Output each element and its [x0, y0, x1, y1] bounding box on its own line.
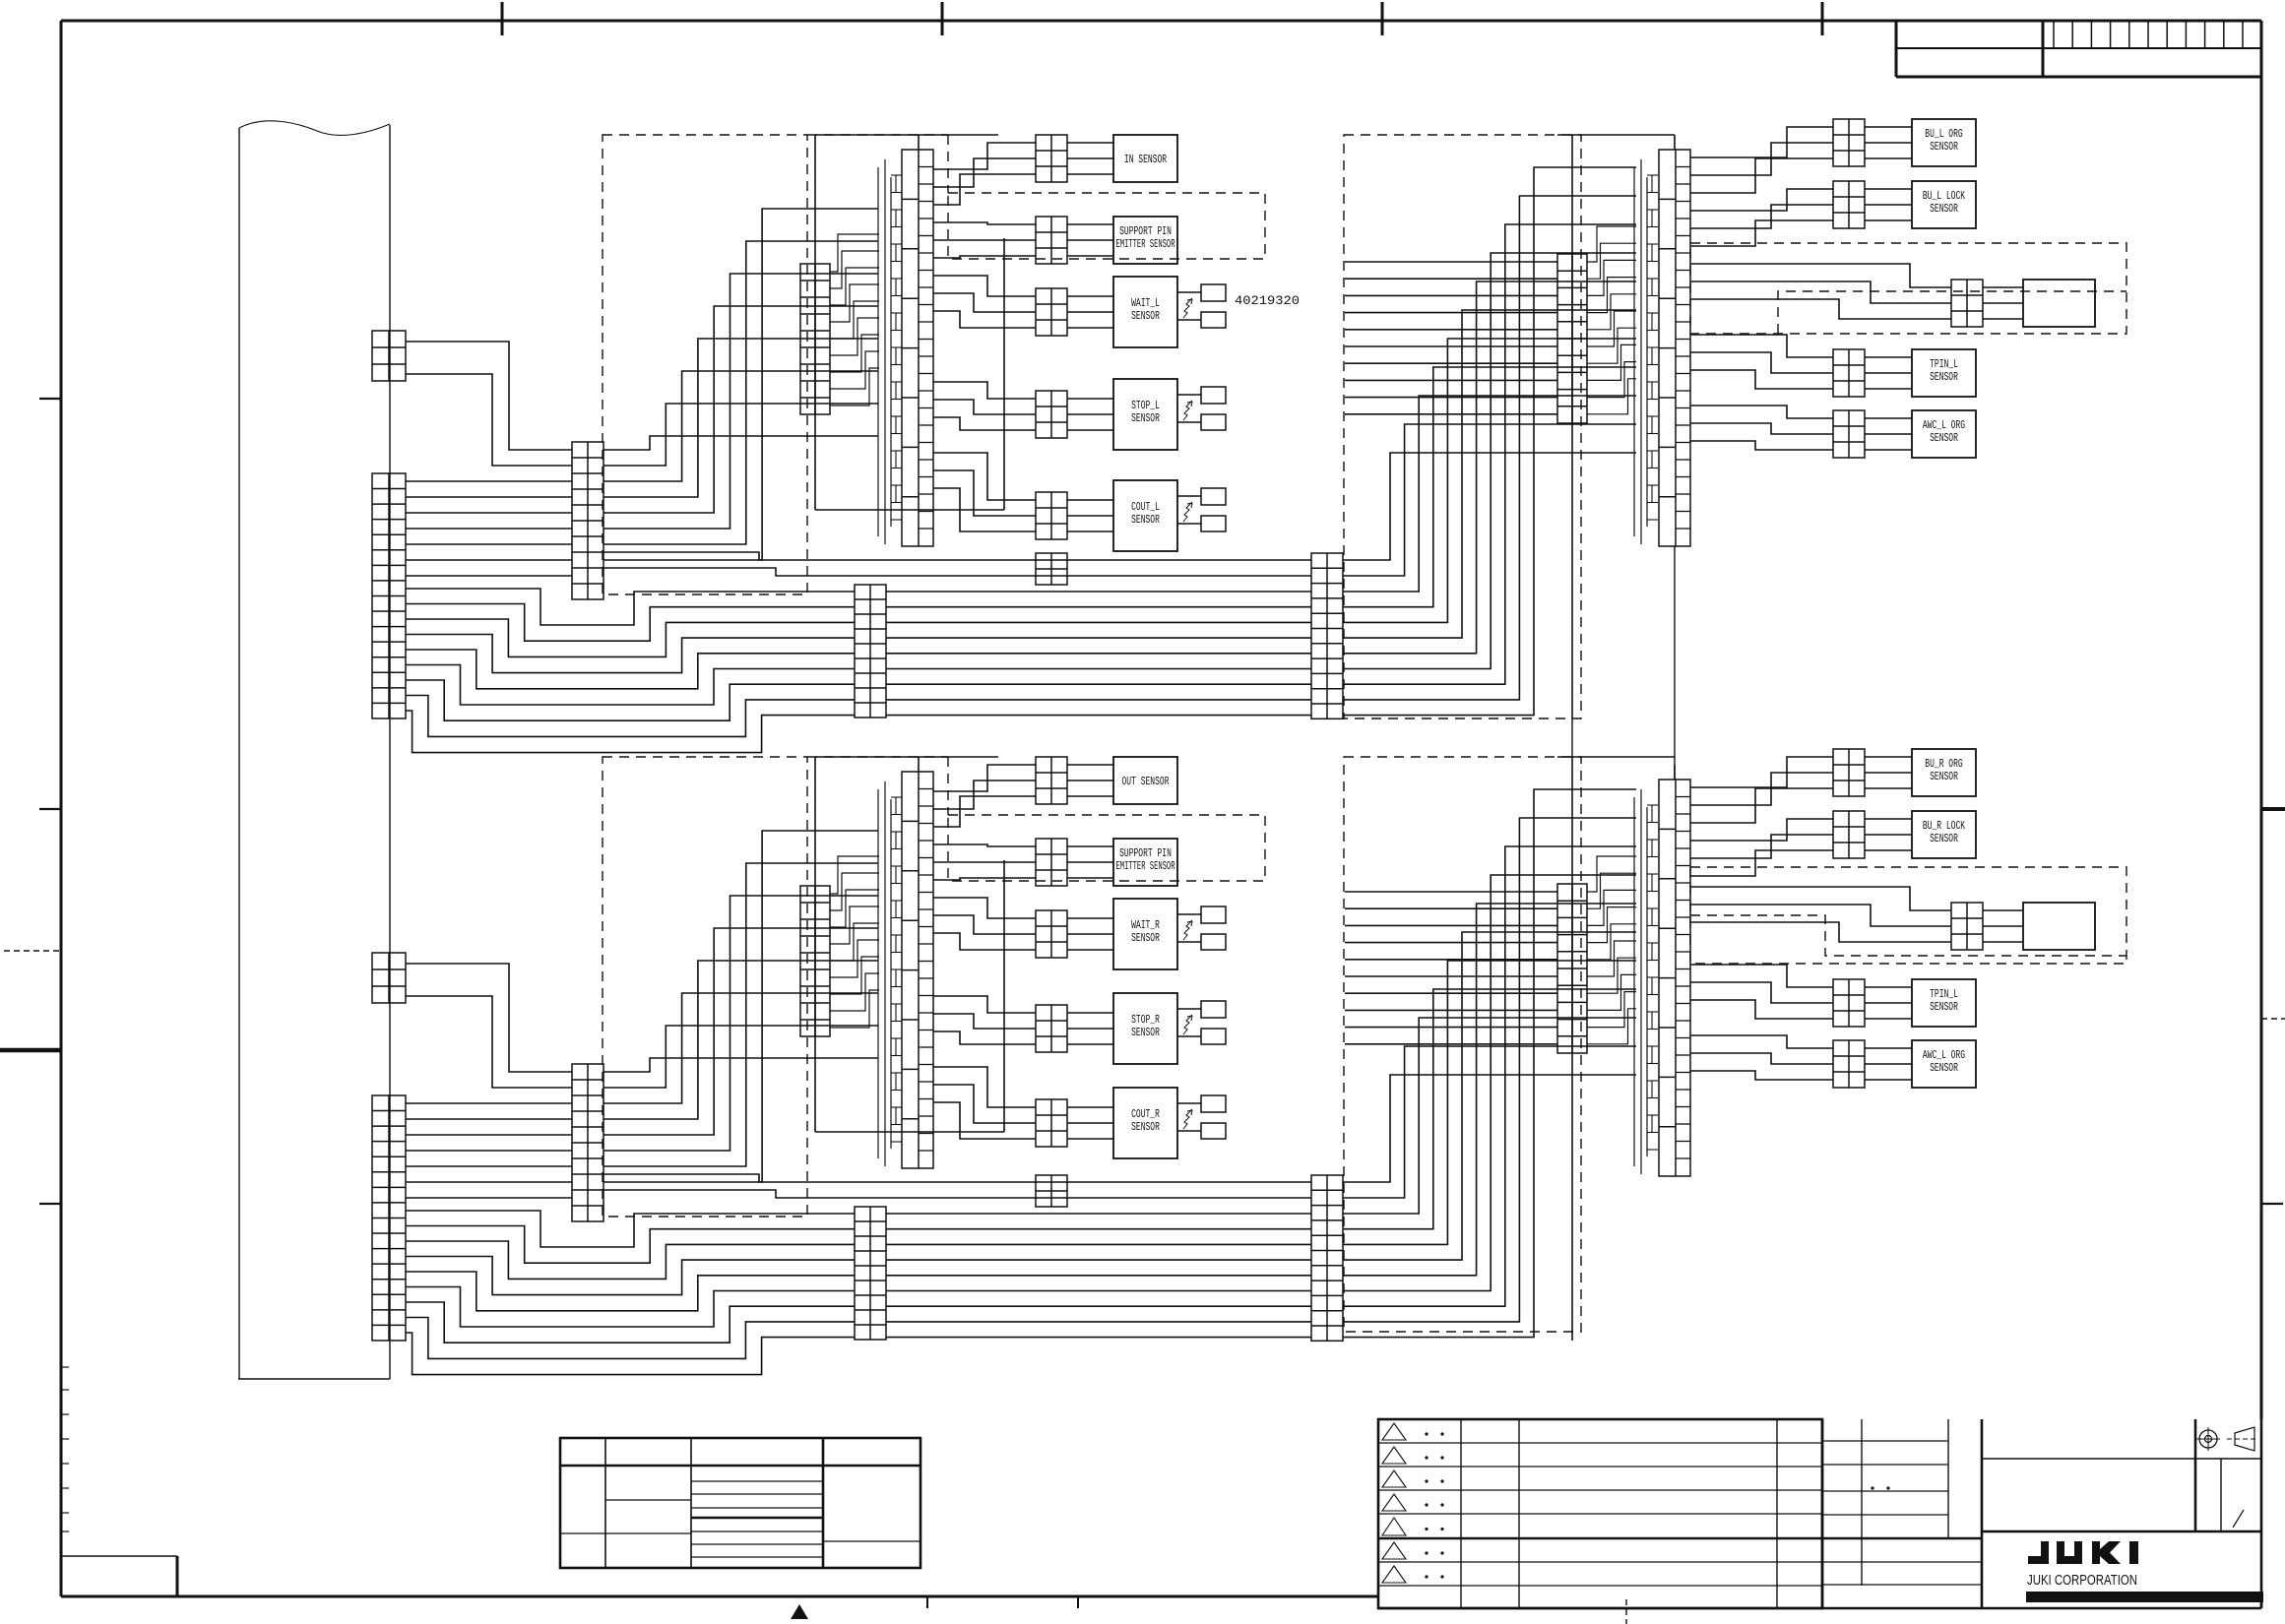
svg-text:SENSOR: SENSOR: [1930, 371, 1958, 384]
svg-text:BU_R ORG: BU_R ORG: [1925, 758, 1962, 771]
svg-text:BU_R LOCK: BU_R LOCK: [1923, 820, 1965, 833]
svg-text:BU_L ORG: BU_L ORG: [1925, 128, 1962, 141]
svg-text:SENSOR: SENSOR: [1930, 1001, 1958, 1014]
svg-text:TPIN_L: TPIN_L: [1930, 988, 1958, 1001]
svg-text:SENSOR: SENSOR: [1930, 1062, 1958, 1075]
svg-text:SENSOR: SENSOR: [1131, 310, 1160, 323]
svg-text:SENSOR: SENSOR: [1131, 514, 1160, 527]
svg-text:AWC_L ORG: AWC_L ORG: [1923, 1049, 1965, 1062]
svg-text:SENSOR: SENSOR: [1930, 432, 1958, 445]
svg-text:WAIT_R: WAIT_R: [1131, 919, 1160, 932]
svg-text:SENSOR: SENSOR: [1131, 1027, 1160, 1039]
svg-text:IN SENSOR: IN SENSOR: [1124, 154, 1167, 166]
svg-text:SUPPORT PIN: SUPPORT PIN: [1119, 225, 1172, 238]
svg-text:40219320: 40219320: [1235, 293, 1300, 308]
svg-text:BU_L LOCK: BU_L LOCK: [1923, 190, 1965, 203]
svg-text:STOP_L: STOP_L: [1131, 400, 1160, 412]
svg-text:SENSOR: SENSOR: [1930, 771, 1958, 783]
svg-text:COUT_R: COUT_R: [1131, 1108, 1160, 1121]
svg-text:WAIT_L: WAIT_L: [1131, 297, 1160, 310]
svg-text:SUPPORT PIN: SUPPORT PIN: [1119, 847, 1172, 860]
svg-text:EMITTER SENSOR: EMITTER SENSOR: [1116, 238, 1175, 251]
svg-text:TPIN_L: TPIN_L: [1930, 358, 1958, 371]
svg-text:SENSOR: SENSOR: [1930, 833, 1958, 845]
svg-text:SENSOR: SENSOR: [1131, 932, 1160, 945]
svg-text:EMITTER SENSOR: EMITTER SENSOR: [1116, 860, 1175, 873]
svg-text:JUKI CORPORATION: JUKI CORPORATION: [2027, 1572, 2137, 1589]
svg-text:SENSOR: SENSOR: [1131, 412, 1160, 425]
svg-text:OUT SENSOR: OUT SENSOR: [1122, 776, 1170, 788]
svg-text:AWC_L ORG: AWC_L ORG: [1923, 419, 1965, 432]
svg-text:SENSOR: SENSOR: [1930, 203, 1958, 216]
svg-text:STOP_R: STOP_R: [1131, 1014, 1160, 1027]
svg-text:SENSOR: SENSOR: [1930, 141, 1958, 154]
svg-text:COUT_L: COUT_L: [1131, 501, 1160, 514]
svg-text:SENSOR: SENSOR: [1131, 1121, 1160, 1134]
